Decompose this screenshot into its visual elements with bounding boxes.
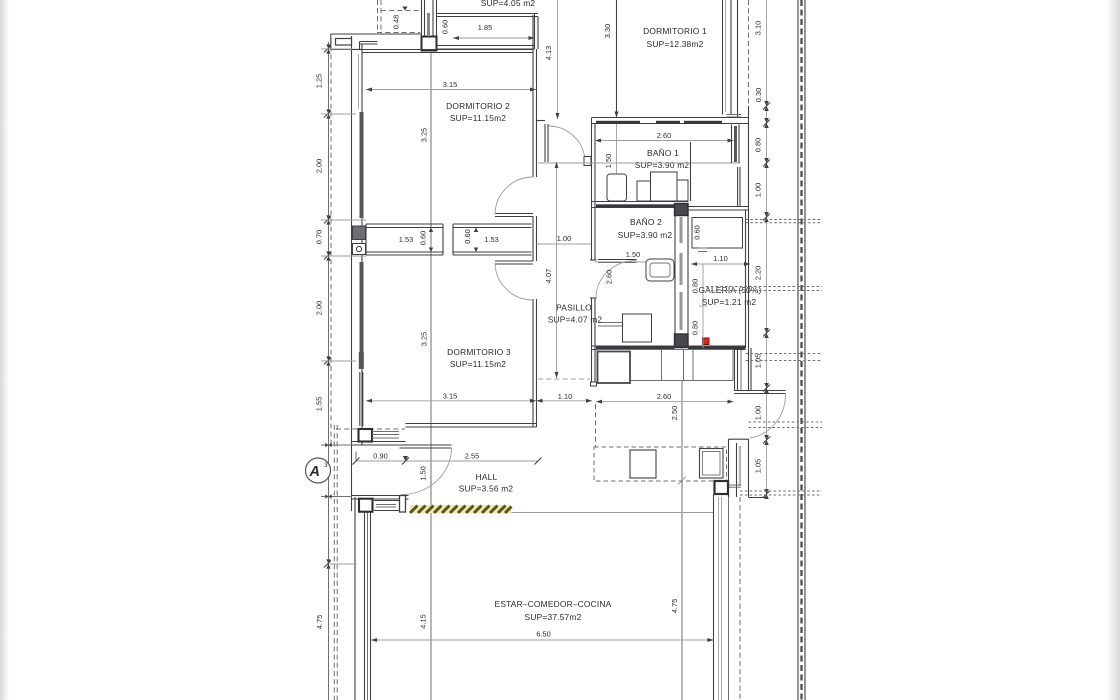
baño 2 wc bbox=[646, 259, 674, 281]
obra hatch strip (yellow/black) bbox=[410, 505, 512, 513]
svg-text:2.60: 2.60 bbox=[657, 392, 671, 401]
svg-text:A: A bbox=[309, 464, 320, 480]
baño 1 washbasin bbox=[607, 174, 627, 201]
svg-text:SUP=11.15m2: SUP=11.15m2 bbox=[450, 113, 506, 123]
svg-text:3.15: 3.15 bbox=[443, 80, 457, 89]
baño2 / galería wall with ducts bbox=[675, 204, 688, 347]
svg-text:4.75: 4.75 bbox=[315, 615, 324, 629]
svg-text:2.00: 2.00 bbox=[315, 159, 324, 173]
galería door arc bbox=[750, 394, 786, 439]
right dashed tie lines row 4 bbox=[749, 422, 823, 428]
svg-text:0.80: 0.80 bbox=[754, 138, 763, 152]
dashed outer line right of dormitorio 1 bbox=[748, 0, 750, 106]
room label hall bbox=[459, 472, 514, 494]
svg-text:0.60: 0.60 bbox=[441, 20, 450, 34]
baño 1 door leaf bbox=[545, 124, 548, 162]
svg-text:2.50: 2.50 bbox=[670, 406, 679, 420]
dimension 1.10 galería bbox=[691, 254, 750, 266]
pillar at corridor corner bbox=[422, 37, 437, 51]
dimension 1.00 pasillo width bbox=[537, 234, 592, 244]
left dim labels bbox=[315, 44, 367, 629]
svg-text:3.25: 3.25 bbox=[420, 128, 429, 142]
svg-text:0.80: 0.80 bbox=[691, 321, 700, 335]
svg-text:0.48: 0.48 bbox=[392, 15, 401, 29]
dimension 1.85 corridor bbox=[453, 23, 535, 40]
corridor top wall bbox=[437, 14, 539, 17]
dimension 2.60 baño 2 bbox=[605, 270, 614, 284]
dimension 0.48 bbox=[392, 7, 408, 30]
svg-text:6.50: 6.50 bbox=[536, 630, 550, 639]
dormitorio 1 bottom wall bbox=[537, 118, 749, 124]
room label pasillo bbox=[548, 303, 603, 325]
svg-text:DORMITORIO 2: DORMITORIO 2 bbox=[446, 101, 510, 111]
page right scan edge bbox=[1106, 0, 1120, 700]
room label galería bbox=[698, 285, 761, 307]
baño 1 window niche frame bbox=[732, 125, 741, 208]
svg-text:SUP=11.15m2: SUP=11.15m2 bbox=[450, 359, 506, 369]
svg-text:4.13: 4.13 bbox=[544, 46, 553, 60]
svg-text:2.20: 2.20 bbox=[754, 266, 763, 280]
dimension 4.07 pasillo bbox=[538, 269, 590, 379]
pasillo east wall (baño side) bbox=[590, 118, 597, 386]
svg-text:1.50: 1.50 bbox=[604, 154, 613, 168]
wall stub at hall/estar bbox=[400, 496, 406, 513]
svg-text:3.10: 3.10 bbox=[754, 21, 763, 35]
dormitorio 3 door leaf bbox=[495, 261, 533, 264]
top-left outer wall corner bbox=[331, 34, 422, 49]
island appliance left bbox=[630, 450, 656, 478]
svg-text:SUP=37.57m2: SUP=37.57m2 bbox=[525, 612, 582, 622]
wardrobe row cabinet A bbox=[366, 224, 443, 255]
svg-text:3.30: 3.30 bbox=[603, 24, 612, 38]
hall dashed hidden line bbox=[336, 428, 405, 430]
baño 1 shower bbox=[651, 172, 678, 201]
galería east wall bbox=[735, 106, 752, 391]
dormitorio 3 door arc bbox=[495, 263, 533, 300]
baño 1 wc bbox=[677, 180, 688, 201]
svg-text:1.00: 1.00 bbox=[754, 183, 763, 197]
svg-text:BAÑO 1: BAÑO 1 bbox=[647, 148, 679, 158]
baño 2 door leaf bbox=[598, 260, 637, 263]
wall box (shaft) in left wall bbox=[353, 226, 366, 240]
left dashed axis line bbox=[330, 38, 332, 447]
svg-text:SUP=3.56 m2: SUP=3.56 m2 bbox=[459, 484, 514, 494]
baño 2 washbasin bbox=[598, 314, 652, 342]
svg-text:0.90: 0.90 bbox=[373, 452, 387, 461]
svg-text:BAÑO 2: BAÑO 2 bbox=[630, 217, 662, 227]
right dim ticks and labels bbox=[754, 21, 771, 499]
svg-text:1.53: 1.53 bbox=[399, 235, 413, 244]
svg-text:1.85: 1.85 bbox=[478, 23, 492, 32]
room label baño 2 bbox=[618, 217, 673, 240]
baño 1 east partition bbox=[690, 142, 692, 201]
baño 1 door arc bbox=[549, 126, 586, 163]
baño 1 door jamb bbox=[584, 157, 591, 166]
svg-text:SUP=12.38m2: SUP=12.38m2 bbox=[647, 39, 704, 49]
left dimension line bbox=[328, 42, 330, 700]
svg-text:1.53: 1.53 bbox=[484, 235, 498, 244]
svg-text:2.60: 2.60 bbox=[657, 131, 671, 140]
baño 2 bottom wall bbox=[592, 346, 746, 350]
room label dormitorio 1 bbox=[643, 26, 707, 49]
dormitorio 2 top wall bbox=[362, 50, 533, 53]
pillar baño2 bottom bbox=[675, 334, 689, 348]
svg-text:1.10: 1.10 bbox=[558, 392, 572, 401]
dimension 1.10 kitchen/pasillo bbox=[537, 392, 593, 403]
room label estar-comedor-cocina bbox=[495, 599, 612, 622]
dimension 3.15 dormitorio 3 bbox=[366, 392, 536, 403]
dimension 6.50 estar bbox=[371, 630, 714, 643]
outer left wall bbox=[351, 36, 353, 511]
central axis line bbox=[430, 52, 432, 700]
galería door leaf (estar side) bbox=[734, 391, 786, 394]
svg-text:0.60: 0.60 bbox=[419, 231, 428, 245]
svg-text:0.60: 0.60 bbox=[463, 229, 472, 243]
svg-text:1.05: 1.05 bbox=[754, 459, 763, 473]
svg-text:SUP=4.07 m2: SUP=4.07 m2 bbox=[548, 315, 603, 325]
kitchen sink bbox=[598, 352, 631, 384]
baño 1 bidet bbox=[637, 181, 651, 201]
pillar baño2 top bbox=[675, 204, 689, 216]
dimension 0.90 / 2.55 hall bbox=[353, 452, 542, 465]
svg-text:0.70: 0.70 bbox=[315, 230, 324, 244]
dormitorio 1 right wall bbox=[723, 0, 742, 117]
right dashed tie lines row 3 bbox=[746, 354, 823, 361]
left wall cavity line bbox=[358, 54, 360, 109]
svg-text:0.30: 0.30 bbox=[754, 88, 763, 102]
wall box with circle (meter) bbox=[353, 244, 366, 255]
dashed duct box top-left bbox=[377, 0, 420, 33]
kitchen island dashed outline bbox=[594, 447, 727, 481]
right dashed tie lines row 2 (galería) bbox=[706, 287, 822, 291]
svg-text:SUP=3.90 m2: SUP=3.90 m2 bbox=[635, 160, 690, 170]
wardrobe row cabinet B bbox=[429, 224, 532, 255]
island appliance right bbox=[700, 449, 724, 479]
hall bottom cabinet bbox=[374, 501, 399, 511]
right dashed tie lines row 5 bbox=[740, 491, 822, 498]
dimension 2.60 baño 1 bbox=[595, 131, 734, 143]
dimension 0.80 / 0.80 galería axis bbox=[691, 264, 708, 348]
svg-text:4.07: 4.07 bbox=[544, 269, 553, 283]
left dashed axis second line (lower) bbox=[333, 425, 335, 700]
svg-text:1.10: 1.10 bbox=[713, 254, 727, 263]
svg-text:2.00: 2.00 bbox=[315, 301, 324, 315]
corridor bottom wall bbox=[437, 46, 535, 50]
baño 2 door arc bbox=[596, 261, 637, 298]
baño 1 / baño 2 dividing wall bbox=[592, 202, 689, 208]
dimension 1.50 baño 1 bbox=[538, 124, 740, 201]
svg-text:4.15: 4.15 bbox=[419, 614, 428, 628]
dormitorio 2 door arc bbox=[495, 177, 533, 214]
window band dormitorio 2/3 lower bbox=[360, 262, 364, 358]
room label baño 1 bbox=[635, 148, 690, 170]
svg-text:3.25: 3.25 bbox=[420, 332, 429, 346]
estar east window wall bbox=[714, 494, 729, 700]
dashed terrace edge (right of estar) bbox=[739, 497, 741, 700]
svg-text:PASILLO: PASILLO bbox=[556, 303, 592, 313]
svg-text:ESTAR–COMEDOR–COCINA: ESTAR–COMEDOR–COCINA bbox=[495, 599, 612, 609]
dimension 2.60 kitchen bbox=[596, 392, 734, 404]
hall top cabinet bbox=[372, 432, 399, 439]
dimension 2.50 kitchen axis bbox=[670, 406, 686, 485]
page left scan edge bbox=[0, 0, 9, 700]
boundary double line with dashes (right property line) bbox=[798, 0, 805, 700]
vent box top-left bbox=[336, 39, 352, 46]
room label dormitorio 3 bbox=[447, 347, 511, 369]
dormitorio 1 left wall / 3.30 axis bbox=[603, 0, 620, 118]
svg-text:1.25: 1.25 bbox=[315, 74, 324, 88]
dimension 4.13 label bbox=[544, 46, 560, 119]
kitchen / estar axis line bbox=[681, 348, 683, 700]
svg-text:2.55: 2.55 bbox=[465, 452, 479, 461]
estar ceiling break line bbox=[512, 512, 714, 514]
svg-text:1.00: 1.00 bbox=[754, 406, 763, 420]
svg-text:4.75: 4.75 bbox=[670, 599, 679, 613]
hall top wall bbox=[352, 442, 406, 446]
right dashed tie lines row 1 bbox=[746, 220, 823, 223]
pasillo west wall (dorm2/dorm3 side) bbox=[533, 15, 537, 427]
svg-text:3: 3 bbox=[324, 462, 328, 469]
pasillo 4.07 dimension line bbox=[556, 162, 558, 378]
svg-text:1.50: 1.50 bbox=[626, 250, 640, 259]
dormitorio 2 door leaf bbox=[495, 214, 533, 217]
galería top wall bbox=[688, 207, 749, 211]
dim line 4.13 / pasillo axis bbox=[557, 0, 559, 119]
hall door leaf bbox=[400, 445, 452, 448]
red survey marker galería bbox=[703, 338, 710, 345]
kitchen counter bbox=[597, 350, 733, 381]
svg-text:2.60: 2.60 bbox=[605, 270, 614, 284]
terrace west window triple line bbox=[365, 511, 371, 700]
pillar hall bottom bbox=[359, 499, 373, 512]
room label dormitorio 2 bbox=[446, 101, 510, 123]
svg-text:1.50: 1.50 bbox=[419, 466, 428, 480]
svg-text:SUP=4.05 m2: SUP=4.05 m2 bbox=[481, 0, 536, 8]
estar NE wall with window slot bbox=[729, 439, 749, 497]
window band dormitorio 2 bbox=[360, 112, 364, 218]
dormitorio 3 bottom wall bbox=[406, 424, 537, 428]
svg-text:HALL: HALL bbox=[476, 472, 498, 482]
window band dormitorio 3 bbox=[359, 352, 364, 426]
svg-text:1.00: 1.00 bbox=[557, 234, 571, 243]
svg-text:DORMITORIO 1: DORMITORIO 1 bbox=[643, 26, 707, 36]
terrace west wall bbox=[354, 497, 356, 700]
svg-text:3.15: 3.15 bbox=[443, 392, 457, 401]
svg-text:SUP=3.90 m2: SUP=3.90 m2 bbox=[618, 230, 673, 240]
galería washer bbox=[692, 218, 743, 252]
dimension 3.15 dormitorio 2 bbox=[366, 80, 536, 92]
dimension 1.50 baño 2 bbox=[595, 250, 675, 262]
hall bottom wall bbox=[352, 496, 409, 500]
svg-text:0.60: 0.60 bbox=[693, 225, 702, 239]
pillar hall top bbox=[359, 429, 373, 442]
dashed link pasillo to island bbox=[595, 404, 597, 447]
inner left wall face bbox=[361, 44, 363, 445]
svg-text:DORMITORIO 3: DORMITORIO 3 bbox=[447, 347, 511, 357]
corridor right wall bbox=[535, 14, 539, 50]
pillar estar NE bbox=[715, 481, 729, 494]
wall left of corridor (vestibule jamb) bbox=[422, 0, 437, 37]
section mark A bbox=[306, 458, 331, 483]
svg-text:1.55: 1.55 bbox=[315, 397, 324, 411]
hall door arc bbox=[401, 448, 452, 495]
right dimension line bbox=[766, 0, 768, 496]
